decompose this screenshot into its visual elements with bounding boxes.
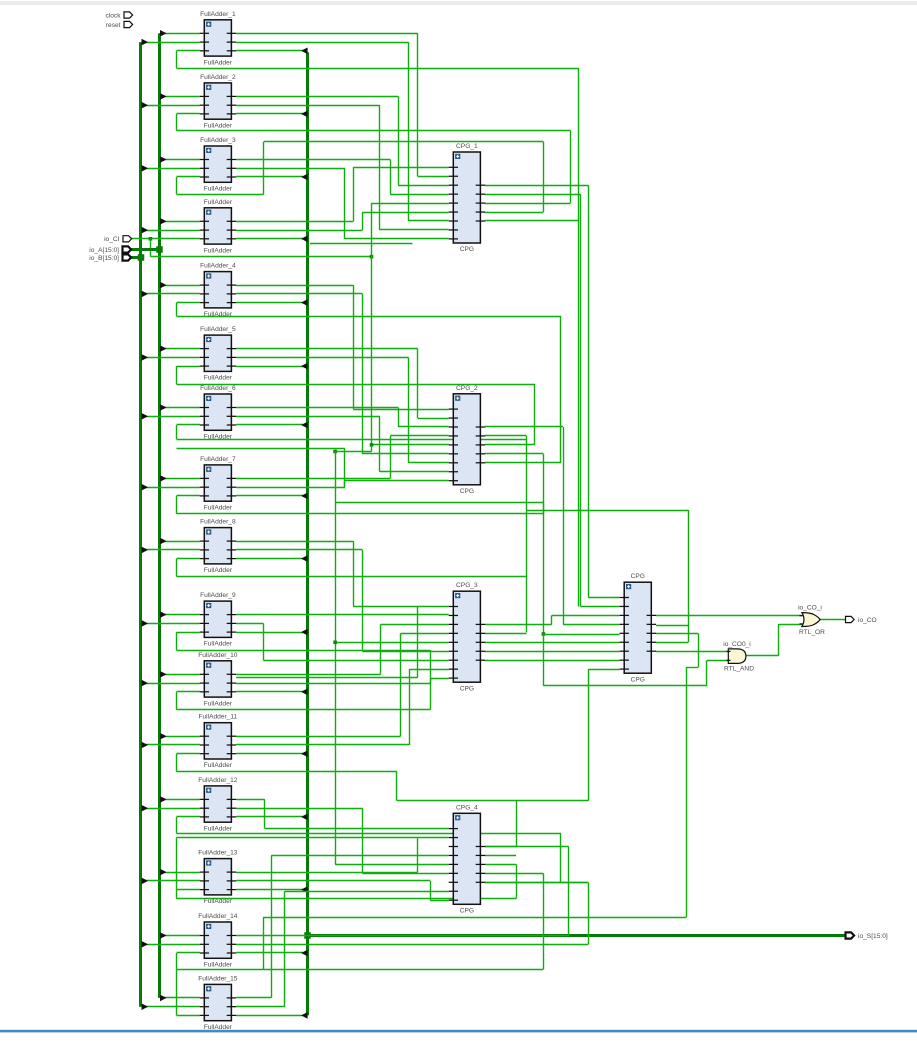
svg-text:FullAdder: FullAdder [204,122,233,129]
block CPG_2 [449,385,486,495]
svg-text:FullAdder_2: FullAdder_2 [200,74,236,81]
wire sum FullAdder_1 to io_S trunk [236,50,303,52]
wire FullAdder_7 row2 to CPG pin9 [236,487,345,489]
wire FullAdder_14 row1 via right channel [236,935,569,937]
port io_CI [123,236,132,242]
wire io_B tap to FullAdder_3 [142,168,200,170]
block FullAdder_7 [200,456,237,512]
svg-text:FullAdder: FullAdder [204,825,233,832]
wire FullAdder_4 row2 to CPG pin6 [236,293,362,295]
svg-text:CPG_1: CPG_1 [456,143,478,150]
wire FullAdder_9 row1 to CPG_3 pin2 [236,614,449,616]
port io_B[15:0] [123,254,132,260]
svg-text:reset: reset [106,22,121,29]
wire ci into FullAdder_14 [177,952,200,954]
wire io_A tap to FullAdder_7 [161,478,200,480]
wire io_A tap to FullAdder_4 [161,285,200,287]
block CPG (group combine) [620,573,657,683]
wire io_B tap to FullAdder_15 [142,1006,200,1008]
svg-text:FullAdder_11: FullAdder_11 [198,714,237,721]
wire io_A tap to FullAdder_15 [161,997,200,999]
wire CPG_4 r2 stub [485,855,516,857]
wire carry CPG_4 to FullAdder_12 [485,882,588,884]
wire ci into FullAdder_3 [177,176,200,178]
wire FullAdder_6 row2 to CPG pin8 [236,416,380,418]
wire sum FullAdder_4 to io_S trunk [236,302,303,304]
wire ci loop under FullAdder_12 [176,817,178,833]
wire carry c1 CPG_1 to FullAdder_1 [485,220,578,222]
port reset [124,21,133,27]
svg-text:FullAdder: FullAdder [204,375,233,382]
wire ci loop under FullAdder_3 [176,177,178,194]
wire io_A tap to FullAdder_2 [161,96,200,98]
wire FullAdder_12 row2 to CPG pin6 [236,808,362,810]
wire ci loop under FullAdder_1 [176,51,178,68]
net io_S bus to port [308,934,846,937]
wire ci into FullAdder_15 [177,1015,200,1017]
wire io_B tap to FullAdder_7 [142,487,200,489]
wire sum FullAdder_11 to io_S trunk [236,753,303,755]
wire io_B tap to FullAdder [142,230,200,232]
port io_CI wire [132,238,200,240]
wire FullAdder_1 row1 to CPG pin2 [236,33,418,35]
block CPG_1 [449,143,486,253]
port io_A[15:0] [123,246,132,252]
wire FullAdder_10 row2 to CPG pin9 [236,683,430,685]
net io_B bus trunk [139,42,142,1007]
svg-text:CPG: CPG [631,676,645,683]
wire CPG r2 r4 stubs [656,625,688,627]
wire carry CPG_2 to FullAdder_4 [485,462,561,464]
wire ci into FullAdder_4 [177,302,200,304]
junction io_S [304,932,311,939]
wire CPG_2 G out to CPG p4 [485,426,563,428]
wire FullAdder_13 row1 to CPG pin2 [236,872,418,874]
block FullAdder_4 [200,263,237,319]
svg-text:FullAdder_15: FullAdder_15 [198,975,238,982]
wire FullAdder_12 row1 to CPG pin1 [236,799,265,801]
wire CPG_3 r1 to CPG p3 [485,624,552,626]
wire io_B tap to FullAdder_8 [142,549,200,551]
block FullAdder [200,199,237,255]
svg-text:FullAdder_8: FullAdder_8 [200,519,236,526]
svg-text:CPG: CPG [460,908,474,915]
wire sum FullAdder_14 to io_S trunk [236,952,303,954]
wire io_A tap to FullAdder_6 [161,407,200,409]
svg-text:FullAdder: FullAdder [204,59,233,66]
wire FullAdder_5 row1 to CPG pin2 [236,348,418,350]
wire ci loop under FullAdder_13 [176,890,178,899]
wire io_B tap to FullAdder_2 [142,105,200,107]
wire io_A tap to FullAdder_13 [161,872,200,874]
wire io_A tap to FullAdder [161,221,200,223]
wire FullAdder_7 row1 to CPG pin4 [236,478,390,480]
wire ci loop under FullAdder_8 [176,559,178,577]
wire io_B tap to FullAdder_12 [142,808,200,810]
bottom blue window edge [0,1030,917,1033]
wire ci into FullAdder_2 [177,113,200,115]
wire FullAdder_5 row2 to CPG pin7 [236,357,408,359]
wire aux CPG_3 pin1 feed [236,677,417,679]
svg-text:CPG: CPG [631,573,645,580]
block FullAdder_2 [200,74,237,129]
svg-text:FullAdder: FullAdder [204,199,233,206]
wire io_A tap to FullAdder_10 [161,674,200,676]
wire ci loop under FullAdder_11 [176,754,178,772]
wire ci into FullAdder_13 [177,889,200,891]
svg-text:FullAdder: FullAdder [204,504,233,511]
wire FullAdder_11 row2 to CPG pin8 [236,744,409,746]
wire ci into FullAdder_11 [177,753,200,755]
net io_S bus trunk [306,52,309,1015]
wire sum FullAdder_8 to io_S trunk [236,558,303,560]
wire CPG_1 G out to CPG p1 [485,185,588,187]
svg-text:CPG: CPG [460,685,474,692]
wire io_A tap to FullAdder_5 [161,348,200,350]
wire io_A tap to FullAdder_11 [161,736,200,738]
wire FullAdder row1 to CPG pin1 [236,221,353,223]
svg-text:io_S[15:0]: io_S[15:0] [858,933,888,940]
wire ci into FullAdder_5 [177,366,200,368]
wire FullAdder_11 row1 to CPG pin4 [236,736,400,738]
wire carry CPG_2 to FullAdder_7 [485,453,544,455]
wire FullAdder_13 upper ci feed [176,838,178,890]
svg-text:FullAdder: FullAdder [204,186,233,193]
wire io_A tap to FullAdder_12 [161,799,200,801]
wire io_A tap to FullAdder_3 [161,159,200,161]
svg-text:FullAdder: FullAdder [204,567,233,574]
wire CPG G to OR gate [656,615,802,617]
port io_A wire [132,248,160,251]
wire ci loop under FullAdder_5 [176,366,178,384]
svg-text:FullAdder_7: FullAdder_7 [200,456,236,463]
wire sum FullAdder_2 to io_S trunk [236,113,303,115]
wire io_B tap to FullAdder_4 [142,293,200,295]
svg-text:FullAdder: FullAdder [204,247,233,254]
wire FullAdder_2 row2 to CPG pin8 [236,105,380,107]
wire carry c2 CPG_1 to FullAdder_2 [485,203,571,205]
svg-text:FullAdder_1: FullAdder_1 [200,11,236,18]
wire carry CPG_2 to FullAdder_6 [485,435,527,437]
svg-text:FullAdder_10: FullAdder_10 [198,652,238,659]
junction io_CI [149,237,153,241]
svg-text:CPG_3: CPG_3 [456,582,478,589]
block FullAdder_13 [198,850,238,906]
block FullAdder_14 [198,913,238,969]
port io_CO [846,616,855,622]
net io_CI to right CPG and AND gate [335,502,543,504]
wire FullAdder row2 to CPG pin6 [236,230,362,232]
svg-text:FullAdder: FullAdder [204,434,233,441]
wire ci loop under FullAdder_9 [176,632,178,650]
wire OR out to io_CO port [820,619,845,621]
svg-text:io_CO_i: io_CO_i [798,605,822,612]
wire CPG_1 P out to CPG p2 [485,194,581,196]
wire FullAdder_15 row2 to CPG pin8 [236,1006,285,1008]
wire ci into FullAdder_8 [177,558,200,560]
wire sum FullAdder_6 to io_S trunk [236,424,303,426]
svg-text:io_CO0_i: io_CO0_i [723,641,751,648]
svg-text:CPG: CPG [460,246,474,253]
svg-text:RTL_OR: RTL_OR [799,629,825,636]
wire io_B tap to FullAdder_14 [142,944,200,946]
svg-text:FullAdder: FullAdder [204,641,233,648]
wire io_A tap to FullAdder_14 [161,935,200,937]
wire CPG_3 r3 to CPG p6 [485,642,620,644]
svg-text:CPG_4: CPG_4 [456,804,478,811]
wire FullAdder_14 row2 via right channel [236,944,588,946]
wire FullAdder_13 row2 to CPG pin9 [236,880,430,882]
wire FullAdder_8 row1 to CPG pin1 [236,541,353,543]
svg-text:FullAdder_6: FullAdder_6 [200,385,236,392]
wire sum FullAdder_5 to io_S trunk [236,366,303,368]
svg-text:clock: clock [105,12,121,19]
wire io_B tap to FullAdder_9 [142,623,200,625]
wire io_B tap to FullAdder_1 [142,42,200,44]
wire ci into FullAdder_9 [177,632,200,634]
wire sum FullAdder_7 to io_S trunk [236,495,303,497]
svg-text:io_CI: io_CI [104,236,120,243]
wire ci loop FullAdder_10 [177,709,431,711]
wire ci loop under FullAdder_7 [176,496,178,514]
wire ci into FullAdder_1 [177,50,200,52]
port clock [124,12,133,18]
or-gate io_CO_i RTL_OR [798,605,825,636]
wire sum FullAdder to io_S trunk [236,238,303,240]
wire ci loop FullAdder_9 [177,650,431,652]
wire ci into FullAdder_10 [177,691,200,693]
wire FullAdder_4 row1 to CPG pin1 [236,285,353,287]
wire FullAdder_15 row1 to CPG pin4 [236,997,271,999]
wire aux below FullAdder_6 [177,448,346,450]
and-gate io_CO0_i RTL_AND [723,641,754,673]
port io_B wire [132,256,142,259]
svg-text:FullAdder_12: FullAdder_12 [198,777,238,784]
wire FullAdder_10 row1 to CPG pin3 [236,674,380,676]
block FullAdder_5 [200,326,237,382]
svg-text:FullAdder: FullAdder [204,1024,233,1031]
block FullAdder_15 [198,975,238,1031]
wire carry CPG_4 to FullAdder_14 and FullAdder_15 [485,873,544,875]
svg-text:FullAdder_14: FullAdder_14 [198,913,238,920]
svg-text:FullAdder_4: FullAdder_4 [200,263,236,270]
svg-text:CPG_2: CPG_2 [456,385,478,392]
svg-text:RTL_AND: RTL_AND [724,666,754,673]
wire carry to FullAdder_14 long path [263,917,265,969]
net io_A bus trunk [158,33,161,998]
wire ci loop under FullAdder_6 [176,425,178,439]
svg-text:FullAdder: FullAdder [204,311,233,318]
svg-text:FullAdder: FullAdder [204,962,233,969]
wire AND out to OR in [746,655,779,657]
wire io_A tap to FullAdder_1 [161,33,200,35]
wire carry CPG_4 to FullAdder_13 [485,864,516,866]
wire io_B tap to FullAdder_13 [142,880,200,882]
wire io_B tap to FullAdder_6 [142,416,200,418]
svg-text:FullAdder: FullAdder [204,762,233,769]
wire io_B tap to FullAdder_5 [142,357,200,359]
block FullAdder_11 [198,714,237,770]
wire carry CPG_2 to FullAdder_5 [485,444,535,446]
block FullAdder_10 [198,652,238,708]
svg-text:FullAdder_13: FullAdder_13 [198,850,238,857]
top gray band [0,1,917,5]
wire carry c3 CPG_1 to FullAdder_3 [485,212,544,214]
wire CPG_4 G out to CPG p9 [485,846,516,848]
svg-text:FullAdder: FullAdder [204,898,233,905]
wire sum FullAdder_3 to io_S trunk [236,176,303,178]
wire CPG_3 r5 to CPG p8 [485,660,620,662]
wire ci loop under FullAdder_2 [176,114,178,131]
wire sum FullAdder_9 to io_S trunk [236,632,303,634]
net io_CI chain [150,239,152,257]
block FullAdder_6 [200,385,237,441]
wire aux near FullAdder block [310,243,412,245]
wire io_B tap to FullAdder_10 [142,683,200,685]
port io_S[15:0] [846,932,855,938]
wire FullAdder_3 row2 to CPG pin9 [236,168,345,170]
block CPG_4 [449,804,486,914]
wire ci loop FullAdder_11 [177,771,398,773]
wire CPG_3 r2 channel [485,633,527,635]
wire ci into FullAdder_12 [177,816,200,818]
wire channel x526 [526,436,528,632]
svg-text:io_A[15:0]: io_A[15:0] [89,247,119,254]
wire FullAdder_6 row1 to CPG pin3 [236,407,398,409]
wire FullAdder_9 row2 to CPG pin7 [236,623,263,625]
wire sum FullAdder_13 to io_S trunk [236,889,303,891]
block FullAdder_9 [200,592,237,648]
wire ci into FullAdder_7 [177,495,200,497]
block CPG_3 [449,582,486,692]
wire io_A tap to FullAdder_8 [161,541,200,543]
wire ci into FullAdder_6 [177,424,200,426]
wire sum FullAdder_10 to io_S trunk [236,691,303,693]
block FullAdder_8 [200,519,237,575]
svg-text:io_B[15:0]: io_B[15:0] [89,255,119,262]
wire ci loop under FullAdder_10 [176,692,178,710]
wire ci loop under FullAdder_4 [176,303,178,316]
wire channel x578 lower segment [578,221,580,606]
wire sum FullAdder_12 to io_S trunk [236,816,303,818]
block FullAdder_3 [200,137,237,193]
block FullAdder_12 [198,777,238,833]
wire CPG_3 r4 to CPG p7 [485,651,620,653]
svg-text:FullAdder_3: FullAdder_3 [200,137,236,144]
wire sum FullAdder_15 to io_S trunk [236,1015,303,1017]
svg-text:FullAdder_9: FullAdder_9 [200,592,236,599]
svg-text:FullAdder_5: FullAdder_5 [200,326,236,333]
wire ci loop FullAdder_8 [177,576,527,578]
svg-text:CPG: CPG [460,488,474,495]
wire FullAdder_8 row2 to CPG pin6 [236,549,362,551]
wire io_B tap to FullAdder_11 [142,744,200,746]
svg-text:io_CO: io_CO [858,617,877,624]
wire FullAdder_3 row1 to CPG pin4 [236,159,390,161]
block FullAdder_1 [200,11,237,67]
wire CPG P to AND gate [656,651,728,653]
wire io_A tap to FullAdder_9 [161,614,200,616]
svg-text:FullAdder: FullAdder [204,700,233,707]
wire FullAdder_2 row1 to CPG pin3 [236,96,398,98]
wire FullAdder_1 row2 to CPG pin7 [236,42,408,44]
